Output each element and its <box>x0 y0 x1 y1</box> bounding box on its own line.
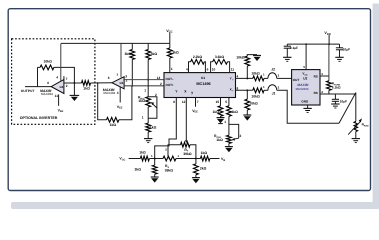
R_CAL rheostat loop <box>229 124 239 138</box>
svg-text:6: 6 <box>108 76 110 80</box>
resistor 1k below R_BAL <box>146 123 151 132</box>
right page-edge grey band <box>373 4 379 210</box>
wire: inverter output wire <box>25 86 51 88</box>
svg-text:3kΩ: 3kΩ <box>172 50 179 54</box>
jumper J1 <box>268 85 277 91</box>
svg-text:1: 1 <box>171 67 173 71</box>
wire: tune node down/right to antenna node <box>329 90 356 94</box>
svg-text:1kΩ: 1kΩ <box>213 110 220 114</box>
wire from VCC <box>129 158 141 160</box>
wire: to op-amp U1B input <box>91 82 113 84</box>
IC U1 MC1496 body <box>164 73 236 98</box>
R_RAD variable arrow <box>348 121 360 134</box>
pot R_CAL 1k (rheostat) <box>227 135 232 143</box>
svg-text:J1: J1 <box>272 92 276 96</box>
svg-text:2: 2 <box>160 82 162 86</box>
antenna R_RAD vertical <box>355 93 357 122</box>
svg-text:3.6kΩ: 3.6kΩ <box>215 55 225 59</box>
resistor 1k bottom left <box>140 156 149 161</box>
svg-text:1kΩ: 1kΩ <box>139 151 146 155</box>
wire: load A down to lower IC wire <box>131 60 133 86</box>
svg-text:2: 2 <box>126 78 128 82</box>
svg-text:OUTPUT: OUTPUT <box>21 89 35 93</box>
wire to jumper J2 <box>264 77 268 79</box>
svg-text:14: 14 <box>157 76 161 80</box>
svg-text:MAX494: MAX494 <box>103 91 115 95</box>
bias resistor bracket pins 10-11 <box>211 62 213 73</box>
svg-text:2: 2 <box>240 134 242 138</box>
svg-text:MAX494: MAX494 <box>41 92 53 96</box>
wire: top 10k to ground <box>247 55 257 57</box>
U2 VCC pin wire <box>305 44 307 70</box>
optional inverter dashed box <box>12 39 95 125</box>
svg-text:RS: RS <box>314 91 318 95</box>
svg-text:1kΩ: 1kΩ <box>138 99 145 103</box>
svg-text:2: 2 <box>66 84 68 88</box>
wire to VB <box>210 158 220 160</box>
wire: pin 8 route to bias node <box>155 98 177 159</box>
svg-text:1: 1 <box>144 89 146 93</box>
svg-text:1: 1 <box>224 120 226 124</box>
svg-text:OUT: OUT <box>293 78 300 82</box>
svg-text:39kΩ: 39kΩ <box>183 152 192 156</box>
ground below node A <box>151 176 159 178</box>
wire: rail tap down to U1B top edge <box>120 43 122 77</box>
svg-text:1kΩ: 1kΩ <box>201 151 208 155</box>
svg-text:12: 12 <box>182 100 186 104</box>
svg-text:10kΩ: 10kΩ <box>236 56 245 60</box>
U2 GND pin wire <box>307 105 309 108</box>
resistor 10k upper carrier <box>253 76 264 81</box>
svg-text:MC1496: MC1496 <box>196 82 210 86</box>
svg-text:2.2kΩ: 2.2kΩ <box>193 55 203 59</box>
jumper J2 <box>268 73 277 79</box>
capacitor 10uF on VDD <box>339 44 341 48</box>
svg-text:7: 7 <box>116 73 118 77</box>
op-amp U1A (optional inverter) <box>51 80 64 94</box>
gain resistor bracket pins 4-6 <box>189 62 191 73</box>
VDD rail <box>287 43 339 45</box>
capacitor 10uF at tune node <box>334 94 336 99</box>
wire: pin 12 down to pot wiper <box>185 98 187 141</box>
svg-text:U2: U2 <box>303 76 307 80</box>
svg-text:1kΩ: 1kΩ <box>216 138 223 142</box>
wire: U1B VEE pin <box>119 87 121 103</box>
R_BAL rheostat loop <box>148 97 157 118</box>
wire: IC pin 4 carrier wire <box>236 77 253 79</box>
junction at inverting input <box>73 82 75 84</box>
ground below 10k <box>243 114 251 116</box>
wire: feedback left vertical <box>37 67 39 86</box>
wire: pin 7 VEE stub <box>195 98 197 107</box>
wire to ground R_CAL <box>228 144 230 147</box>
svg-text:3kΩ: 3kΩ <box>135 168 142 172</box>
wire: pin5 down to pot R_CAL <box>228 116 230 135</box>
resistor 3k load B from rail <box>147 43 149 49</box>
svg-text:U1: U1 <box>201 76 205 80</box>
svg-text:2kΩ: 2kΩ <box>200 166 207 170</box>
wiper arrowhead of bottom pot <box>185 140 188 143</box>
ground below 0.1uF <box>283 56 291 58</box>
resistor 2k at node B <box>195 159 197 164</box>
wire: load B down to upper IC wire <box>147 60 149 80</box>
svg-text:J2: J2 <box>271 68 275 72</box>
resistor 3k to ground at node A <box>154 159 156 166</box>
pin 7 stub <box>63 76 65 80</box>
svg-text:10kΩ: 10kΩ <box>249 102 258 106</box>
svg-text:1: 1 <box>142 116 144 120</box>
wire: J2 to U2 OUT pin <box>277 77 292 79</box>
svg-text:8: 8 <box>237 87 239 91</box>
wire: pot bottom to 1k <box>147 107 149 123</box>
R_BAL wiper arrow <box>152 103 157 108</box>
resistor RX on main wire <box>163 156 176 161</box>
svg-text:1kΩ: 1kΩ <box>83 86 90 90</box>
svg-text:4: 4 <box>237 75 239 79</box>
ground below R_CAL <box>225 146 233 148</box>
svg-text:11: 11 <box>55 94 59 98</box>
wire to node A <box>149 158 163 160</box>
op-amp U1B (points left) <box>112 77 124 89</box>
resistor 1k lower branch <box>107 117 119 122</box>
svg-text:VEE: VEE <box>192 109 198 114</box>
svg-text:6: 6 <box>47 81 49 85</box>
ground below R_BAL chain <box>144 138 152 140</box>
wire: VDD down to tune node <box>328 44 330 81</box>
svg-text:15: 15 <box>216 100 220 104</box>
svg-text:4: 4 <box>56 75 58 79</box>
capacitor 0.1uF on VDD <box>286 44 288 46</box>
svg-text:3kΩ: 3kΩ <box>125 52 132 56</box>
wire cap to ground <box>334 101 336 104</box>
wire to jumper J1 <box>264 89 268 91</box>
ground below 10uF cap <box>331 103 339 105</box>
wire: from upper IC net down to pot R_BAL <box>147 80 149 97</box>
VDD stub <box>328 35 330 44</box>
ground below op-amp U1A <box>70 94 80 96</box>
svg-text:y: y <box>191 90 193 94</box>
svg-text:10kΩ: 10kΩ <box>251 94 260 98</box>
svg-text:1kΩ: 1kΩ <box>150 125 157 129</box>
svg-text:0.1μF: 0.1μF <box>290 46 298 50</box>
wire: diagonal to antenna node <box>339 93 356 124</box>
wire to ground below R_BAL chain <box>147 132 149 139</box>
svg-text:1kΩ: 1kΩ <box>110 123 117 127</box>
wire: VEE pin of U1A <box>58 94 60 105</box>
svg-text:11: 11 <box>231 67 235 71</box>
svg-text:5: 5 <box>225 100 227 104</box>
resistor 10k pull-down (bottom) <box>246 90 248 99</box>
svg-text:2: 2 <box>155 93 157 97</box>
wire: bottom 10k to ground <box>246 110 248 115</box>
svg-text:MAX2606: MAX2606 <box>296 87 309 91</box>
wire: down to IC pin 1 <box>169 58 171 73</box>
svg-text:8: 8 <box>173 100 175 104</box>
wire: branch down from input wire <box>98 83 107 120</box>
wire: VCC stub <box>169 33 171 44</box>
ground below node B <box>192 177 200 179</box>
wire: lower signal into IC pin 2 <box>124 85 164 87</box>
wire to ground pin15 <box>220 116 222 118</box>
resistor 3k from rail to IC pin 1 <box>169 43 171 48</box>
wire to node B <box>176 158 200 160</box>
wire: feedback to inverting input / rail tap <box>54 67 75 83</box>
bottom page-edge grey band <box>11 202 379 209</box>
resistor 1k below pin 15 <box>220 98 222 106</box>
ground below U2 <box>303 107 311 109</box>
svg-text:OUT–: OUT– <box>166 77 174 81</box>
svg-text:3kΩ: 3kΩ <box>151 52 158 56</box>
svg-text:1/4: 1/4 <box>59 85 63 89</box>
svg-text:1kΩ: 1kΩ <box>231 110 238 114</box>
svg-text:7: 7 <box>197 100 199 104</box>
R_CAL wiper arrow <box>233 138 239 139</box>
svg-text:7: 7 <box>66 77 68 81</box>
svg-text:4: 4 <box>117 91 119 95</box>
resistor 10k lower carrier <box>253 88 264 93</box>
wire: rail tap down to op-amp edge pin 4 <box>60 43 62 81</box>
svg-text:OPTIONAL INVERTER: OPTIONAL INVERTER <box>20 116 58 120</box>
ground below pin 15 <box>217 117 225 119</box>
svg-text:10μF: 10μF <box>343 48 350 52</box>
svg-text:10kΩ: 10kΩ <box>251 72 260 76</box>
resistor R_TUNE <box>327 81 332 91</box>
pot RY above main wire <box>168 145 181 159</box>
wire: inverter input wire <box>74 82 81 84</box>
svg-text:39kΩ: 39kΩ <box>165 169 174 173</box>
svg-text:10kΩ: 10kΩ <box>44 60 53 64</box>
svg-text:6: 6 <box>207 67 209 71</box>
IC U2 MAX2606 body <box>292 70 320 105</box>
wire: top rail from inverter tap to VCC corner <box>61 42 170 44</box>
svg-text:1/4: 1/4 <box>119 81 123 85</box>
svg-text:10: 10 <box>212 67 216 71</box>
resistor 1k between op-amps <box>82 81 91 86</box>
feedback resistor 10k of inverter <box>40 65 54 70</box>
resistor 3k load A from rail <box>131 43 133 49</box>
ground top right of IC <box>253 54 261 56</box>
wire: IC pin 8 carrier wire <box>236 89 253 91</box>
ground below R_RAD <box>352 138 360 140</box>
wire: upper signal into IC pin 14 <box>124 79 164 81</box>
wire: J1 down and right to antenna line <box>277 90 339 123</box>
svg-text:4: 4 <box>186 67 188 71</box>
ground below 10uF <box>335 56 343 58</box>
wire: lower branch up to IC output net <box>119 86 132 120</box>
svg-text:GND: GND <box>301 100 309 104</box>
svg-text:RS: RS <box>314 74 318 78</box>
outer schematic border <box>8 9 370 191</box>
wire: op-amp + input down to ground <box>73 83 75 95</box>
resistor 1k below pin 5 <box>228 98 230 106</box>
resistor 10k pull-up to ground arrow (top) <box>246 66 248 78</box>
resistor 1k bottom right <box>200 156 210 161</box>
svg-text:OUT+: OUT+ <box>166 83 174 87</box>
U2 right pin wires <box>320 75 329 77</box>
pot R_BAL 1k (rheostat) <box>146 97 151 107</box>
svg-text:10μF: 10μF <box>340 100 347 104</box>
svg-text:6.1kΩ: 6.1kΩ <box>332 86 341 90</box>
